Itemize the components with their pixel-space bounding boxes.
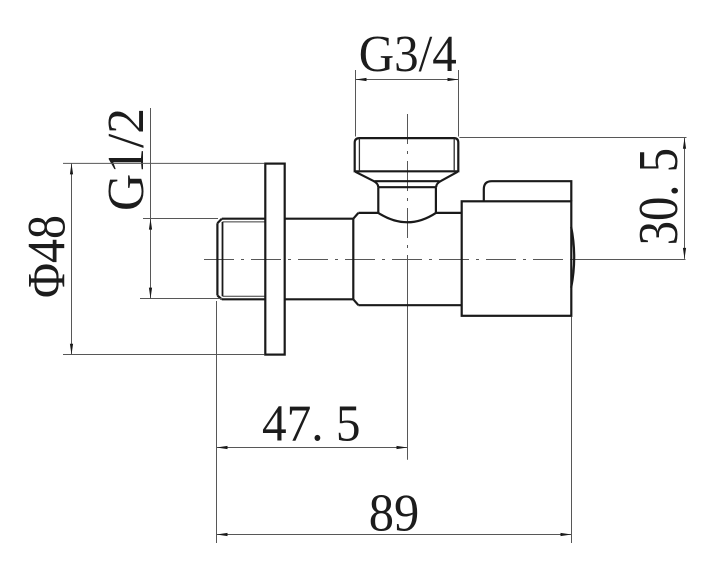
neck top line [378,186,436,188]
svg-text:30. 5: 30. 5 [628,148,690,245]
G1/2 bottom extension line [140,298,222,300]
hex cap right facet line [453,139,455,172]
svg-text:G3/4: G3/4 [359,26,457,83]
dia48 bottom extension line [63,354,265,356]
dia48 top extension line [63,162,265,164]
89 dimension line [217,534,572,536]
dia48 top arrow [70,163,73,174]
G3/4 right extension line [458,70,460,137]
neck-body intersection arc [378,213,436,222]
hex cap left facet line [358,139,360,172]
G1/2 top extension line [143,218,218,220]
thread end face [216,223,218,295]
thread chamfer top [217,219,221,224]
30.5 dimension line [684,138,686,259]
large body OD bottom [358,304,461,306]
30.5 top arrow [683,138,686,149]
30.5 bottom arrow [683,248,686,259]
large body OD top right segment [436,212,462,214]
flange plate [265,164,284,355]
hex cap outline [355,138,459,171]
handle end dome arc [571,227,574,288]
small body OD bottom [285,298,353,300]
handle tab [484,181,572,201]
step chamfer bottom [353,299,358,305]
89 right extension line [571,317,573,543]
30.5 top extension line [459,137,686,139]
thread root top [223,221,266,223]
thread OD top [222,218,265,220]
vertical centerline [407,114,409,262]
svg-text:G1/2: G1/2 [98,108,155,211]
G1/2 dimension line [150,108,152,299]
89 right arrow [561,533,572,536]
G3/4 left extension line [355,70,357,137]
horizontal centerline [204,259,571,261]
89 left arrow [217,533,228,536]
dia48 bottom arrow [70,344,73,355]
47.5 dimension line [217,447,408,449]
G1/2 top arrow [149,219,152,230]
step face [352,219,354,300]
G1/2 bottom arrow [149,288,152,299]
47.5 left extension line [216,301,218,543]
dia48 dimension line [71,163,73,354]
47.5 right arrow [397,446,408,449]
thread OD bottom [222,298,265,300]
thread chamfer bottom [217,296,221,300]
handle block [462,201,572,315]
svg-text:47. 5: 47. 5 [262,396,361,453]
G3/4 left arrow [356,78,367,81]
neck right edge [435,187,437,213]
neck left edge [377,187,379,213]
thread chamfer edge line [222,222,224,296]
thread root bottom [223,295,266,297]
cone bottom tangent line [374,180,439,182]
svg-text:Φ48: Φ48 [17,215,77,298]
cone right side [436,172,458,187]
G3/4 dimension line [356,79,459,81]
svg-text:89: 89 [369,485,420,543]
47.5 left arrow [217,446,228,449]
G3/4 right arrow [448,78,459,81]
small body OD top [285,218,353,220]
cone left side [355,172,378,187]
large body OD top left segment [358,212,378,214]
step chamfer top [353,213,358,219]
